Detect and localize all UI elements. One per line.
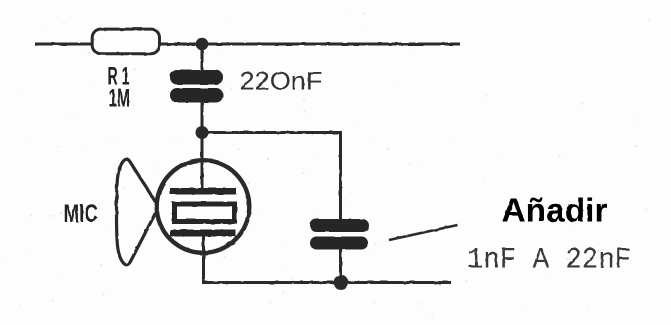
svg-text:1M: 1M [109,85,131,113]
svg-text:22OnF: 22OnF [240,68,323,96]
svg-text:Añadir: Añadir [502,192,608,229]
svg-text:MIC: MIC [64,200,99,228]
svg-text:1nF A 22nF: 1nF A 22nF [467,244,631,278]
